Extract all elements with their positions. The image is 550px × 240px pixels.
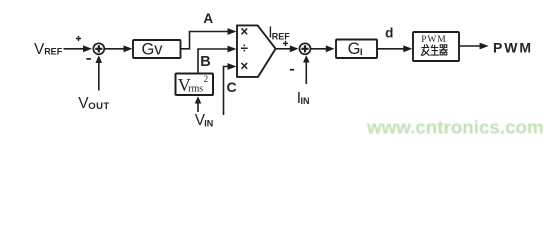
svg-text:www.cntronics.com: www.cntronics.com [366,117,544,138]
svg-text:÷: ÷ [241,40,249,55]
svg-text:rms: rms [188,83,203,94]
svg-text:Gv: Gv [141,40,163,58]
svg-text:REF: REF [272,32,291,42]
svg-text:PWM: PWM [493,39,533,55]
svg-text:REF: REF [44,47,63,57]
svg-text:C: C [226,79,236,95]
svg-text:PWM: PWM [421,35,446,45]
svg-text:2: 2 [204,74,209,84]
svg-text:×: × [240,58,248,73]
svg-text:B: B [200,54,210,70]
svg-text:I: I [360,47,363,57]
svg-text:d: d [385,25,393,40]
svg-text:OUT: OUT [88,101,109,112]
svg-text:IN: IN [301,96,310,106]
svg-text:IN: IN [204,118,213,128]
svg-text:G: G [348,40,361,58]
svg-text:×: × [240,24,248,39]
svg-text:A: A [203,11,213,26]
